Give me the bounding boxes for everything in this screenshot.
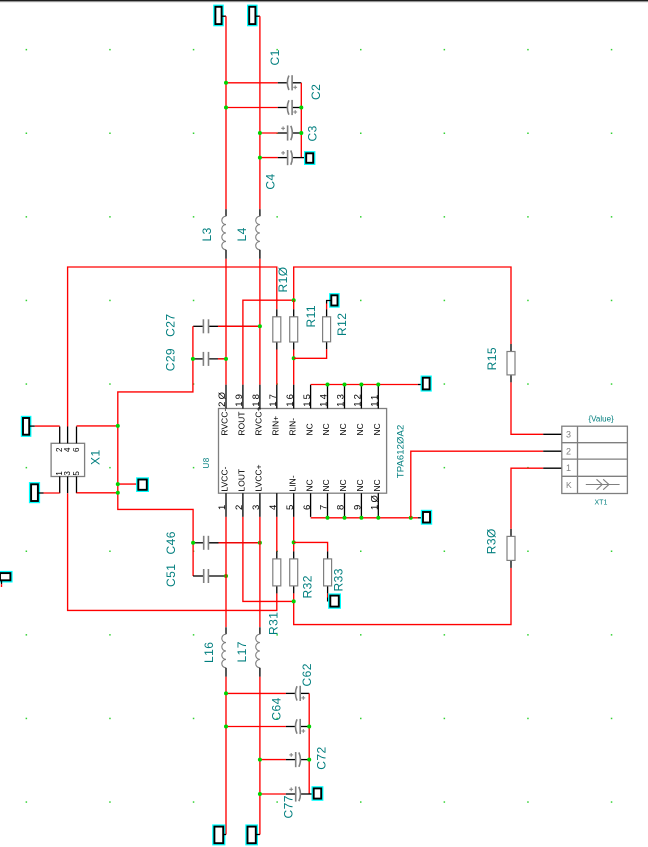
junction bbox=[307, 725, 311, 729]
resistor R30 bbox=[507, 529, 515, 568]
pin 12 stub bbox=[360, 385, 362, 409]
wire R12 bottom to RIN- net bbox=[294, 349, 327, 358]
junction bbox=[376, 516, 380, 520]
svg-text:15: 15 bbox=[302, 392, 313, 407]
svg-text:19: 19 bbox=[234, 392, 245, 407]
svg-text:5: 5 bbox=[285, 503, 296, 510]
capacitor C77 bbox=[286, 786, 314, 801]
junction bbox=[224, 691, 228, 695]
svg-text:2: 2 bbox=[566, 446, 571, 456]
resistor R31 bbox=[273, 551, 281, 593]
junction bbox=[359, 383, 363, 387]
wire pin1 line down bbox=[225, 517, 227, 627]
svg-text:C77: C77 bbox=[282, 795, 296, 818]
inductor L4 bbox=[256, 209, 260, 259]
svg-text:R1Ø: R1Ø bbox=[276, 266, 290, 292]
wire pin5 to R32 bbox=[293, 517, 295, 552]
junction bbox=[258, 131, 262, 135]
svg-text:LVCC+: LVCC+ bbox=[254, 464, 264, 491]
junction bbox=[326, 516, 330, 520]
X1 pin 4 bbox=[67, 427, 69, 444]
wire L17 down to port bbox=[259, 677, 261, 835]
junction bbox=[224, 106, 228, 110]
junction bbox=[116, 491, 120, 495]
wire bbox=[255, 15, 260, 17]
resistor R33 bbox=[324, 551, 332, 593]
wire caps-left net (C27/C29 to X1 right / C46/C51) bbox=[118, 326, 193, 576]
pin 11 stub bbox=[377, 385, 379, 409]
svg-text:C46: C46 bbox=[164, 531, 178, 554]
pin 2 stub bbox=[242, 493, 244, 517]
svg-text:R12: R12 bbox=[335, 313, 349, 336]
wire R32 bottom to R30 bbox=[294, 568, 511, 625]
resistor R32 bbox=[290, 551, 298, 593]
port P13 (bottom) bbox=[246, 825, 257, 844]
svg-text:TPA612ØA2: TPA612ØA2 bbox=[396, 425, 407, 479]
capacitor C51 bbox=[193, 569, 226, 583]
port P14 (left edge) bbox=[0, 572, 12, 582]
junction bbox=[116, 482, 120, 486]
wire C2 row bbox=[226, 107, 278, 109]
X1 pin 2 bbox=[59, 427, 61, 444]
wire bbox=[326, 304, 328, 310]
wire C62 row bbox=[226, 692, 286, 694]
port P10 (R33 bottom) bbox=[327, 593, 329, 597]
pin 20 stub bbox=[225, 385, 227, 409]
wire bbox=[259, 16, 261, 209]
svg-text:12: 12 bbox=[353, 392, 364, 407]
wire X1 pin6 to node bbox=[77, 425, 118, 427]
capacitor C64 bbox=[286, 719, 309, 734]
wire X1 pin3 rail to R31 bbox=[68, 493, 277, 610]
capacitor C27 bbox=[193, 319, 260, 333]
wire C1 row bbox=[226, 82, 278, 84]
capacitor C1 bbox=[278, 75, 302, 90]
svg-text:NC: NC bbox=[372, 423, 382, 435]
svg-text:L4: L4 bbox=[235, 227, 249, 241]
wire C4 row bbox=[260, 157, 278, 159]
junction bbox=[224, 574, 228, 578]
junction bbox=[258, 541, 262, 545]
junction bbox=[258, 156, 262, 160]
wire C27 right to pin18 bbox=[218, 325, 260, 327]
svg-text:R32: R32 bbox=[301, 575, 315, 598]
junction bbox=[292, 599, 296, 603]
wire XT1 pin3 stub bbox=[543, 433, 562, 435]
svg-text:C72: C72 bbox=[315, 746, 329, 769]
svg-text:NC: NC bbox=[321, 423, 331, 435]
inductor L16 bbox=[222, 627, 226, 677]
port P12 (bottom left) bbox=[213, 825, 225, 844]
capacitor C72 bbox=[286, 752, 309, 767]
junction bbox=[191, 541, 195, 545]
svg-text:5: 5 bbox=[72, 471, 81, 476]
pin 18 stub bbox=[259, 385, 261, 409]
resistor R10 bbox=[273, 309, 281, 349]
svg-text:RVCC-: RVCC- bbox=[220, 409, 230, 436]
svg-text:RIN-: RIN- bbox=[287, 418, 297, 436]
resistor R11 bbox=[290, 309, 298, 349]
capacitor C62 bbox=[286, 686, 309, 701]
wire left loop (bus to R10 / X1 pin4) bbox=[68, 267, 277, 427]
svg-text:R11: R11 bbox=[304, 305, 318, 327]
pin 13 stub bbox=[344, 385, 346, 409]
svg-text:C3: C3 bbox=[306, 125, 320, 141]
svg-text:C62: C62 bbox=[300, 663, 314, 686]
pin 14 stub bbox=[327, 385, 329, 409]
junction bbox=[299, 106, 303, 110]
wire bbox=[29, 425, 35, 427]
wire R15 to XT1 pin3 bbox=[511, 382, 543, 434]
svg-text:9: 9 bbox=[353, 503, 364, 510]
wire bbox=[256, 834, 260, 836]
wire pin3 line down bbox=[259, 517, 261, 627]
wire bottom right rail bbox=[308, 693, 310, 794]
junction bbox=[191, 357, 195, 361]
svg-text:C1: C1 bbox=[268, 49, 282, 65]
op-amp U8 TPA6120A2 body bbox=[219, 409, 387, 494]
svg-text:NC: NC bbox=[338, 479, 348, 491]
junction bbox=[359, 516, 363, 520]
svg-text:L3: L3 bbox=[200, 227, 214, 241]
svg-text:R3Ø: R3Ø bbox=[484, 528, 498, 554]
wire XT1 pin1 stub bbox=[543, 467, 562, 469]
svg-text:L16: L16 bbox=[202, 642, 216, 663]
junction bbox=[224, 357, 228, 361]
svg-text:2: 2 bbox=[234, 503, 245, 510]
capacitor C4 bbox=[278, 150, 306, 165]
X1 pin 5 bbox=[76, 477, 78, 494]
svg-text:3: 3 bbox=[63, 471, 72, 476]
svg-text:C64: C64 bbox=[270, 697, 284, 720]
pin 4 stub bbox=[276, 493, 278, 517]
wire L16 down to port bbox=[225, 677, 227, 835]
wire C72 row bbox=[260, 759, 286, 761]
svg-text:NC: NC bbox=[355, 423, 365, 435]
junction bbox=[343, 516, 347, 520]
pin 15 stub bbox=[310, 385, 312, 409]
svg-text:R15: R15 bbox=[485, 347, 499, 370]
svg-text:NC: NC bbox=[304, 423, 314, 435]
pin 1 stub bbox=[225, 493, 227, 517]
junction bbox=[224, 725, 228, 729]
svg-text:17: 17 bbox=[268, 392, 279, 407]
junction bbox=[307, 758, 311, 762]
svg-text:LIN-: LIN- bbox=[287, 475, 297, 491]
junction bbox=[292, 298, 296, 302]
XT1 K-row arrow symbol bbox=[586, 479, 620, 489]
wire R33 branch bbox=[294, 542, 328, 551]
svg-text:11: 11 bbox=[370, 393, 381, 407]
capacitor C3 bbox=[278, 125, 302, 140]
port P9 (bottom NC bus) bbox=[418, 517, 423, 519]
wire XT1 pin1 net bbox=[511, 468, 543, 529]
port P7 (right of X1) bbox=[118, 483, 137, 485]
wire XT1 pin2 net bbox=[411, 451, 543, 518]
wire pin4 to R31 bbox=[276, 517, 278, 552]
wire C29 right to pin20 bbox=[218, 358, 226, 360]
svg-text:8: 8 bbox=[336, 503, 347, 510]
wire R11 bottom to pin16 bbox=[293, 350, 295, 385]
wire R10 to pin17 bbox=[276, 350, 278, 385]
junction bbox=[299, 131, 303, 135]
capacitor C46 bbox=[193, 536, 260, 550]
port P11 (C77 right) bbox=[312, 787, 322, 800]
port P5 (X1 pin2) bbox=[22, 417, 31, 437]
wire bbox=[38, 492, 44, 494]
resistor R15 bbox=[507, 344, 515, 382]
junction bbox=[258, 758, 262, 762]
svg-text:U8: U8 bbox=[202, 457, 211, 468]
svg-text:6: 6 bbox=[72, 447, 81, 452]
wire C46 right to pin3 bbox=[219, 542, 260, 544]
svg-text:NC: NC bbox=[355, 479, 365, 491]
wire right rail C1-C4 bbox=[300, 83, 302, 158]
connector X1 body bbox=[51, 443, 85, 476]
wire pin2 to R32 bottom bbox=[243, 517, 294, 602]
capacitor C2 bbox=[278, 100, 302, 115]
svg-text:NC: NC bbox=[304, 479, 314, 491]
wire R12 port stub bbox=[327, 301, 332, 304]
wire XT1 pin2 stub bbox=[543, 450, 562, 452]
svg-text:RIN+: RIN+ bbox=[271, 416, 281, 436]
svg-text:16: 16 bbox=[285, 392, 296, 407]
junction bbox=[258, 792, 262, 796]
svg-text:7: 7 bbox=[319, 503, 330, 510]
pin 5 stub bbox=[293, 493, 295, 517]
pin 9 stub bbox=[360, 493, 362, 517]
junction bbox=[292, 356, 296, 360]
svg-text:C51: C51 bbox=[164, 564, 178, 587]
svg-text:RVCC+: RVCC+ bbox=[254, 407, 264, 436]
svg-text:XT1: XT1 bbox=[595, 500, 608, 507]
svg-text:C2: C2 bbox=[309, 84, 323, 100]
wire C77 row bbox=[260, 793, 286, 795]
inductor L3 bbox=[222, 209, 226, 259]
svg-text:1: 1 bbox=[217, 503, 228, 510]
wire bbox=[223, 834, 226, 836]
svg-text:R31: R31 bbox=[267, 612, 281, 635]
X1 pin 3 bbox=[67, 477, 69, 494]
svg-text:K: K bbox=[566, 480, 572, 490]
capacitor C29 bbox=[193, 352, 226, 366]
junction bbox=[409, 516, 413, 520]
wire ROUT pin19 to R11 top bbox=[243, 300, 294, 385]
resistor R12 bbox=[323, 309, 331, 349]
port P6 (X1 pin1) bbox=[30, 483, 40, 503]
inductor L17 bbox=[256, 627, 260, 677]
pin 10 stub bbox=[377, 493, 379, 517]
svg-text:{Value}: {Value} bbox=[589, 414, 615, 423]
wire top NC bus (pins 15-11) bbox=[311, 384, 418, 386]
port P2 (top supply) bbox=[248, 5, 257, 25]
svg-text:L17: L17 bbox=[235, 641, 249, 662]
pin 8 stub bbox=[344, 493, 346, 517]
junction bbox=[116, 424, 120, 428]
svg-text:13: 13 bbox=[336, 392, 347, 407]
pin 7 stub bbox=[327, 493, 329, 517]
wire C3 row bbox=[260, 132, 278, 134]
wire L4 to pin18 bbox=[259, 259, 261, 385]
junction bbox=[258, 324, 262, 328]
junction bbox=[343, 383, 347, 387]
pin 3 stub bbox=[259, 493, 261, 517]
svg-text:C29: C29 bbox=[163, 348, 177, 371]
connector XT1 table bbox=[562, 426, 628, 493]
junction bbox=[292, 540, 296, 544]
X1 pin 1 bbox=[59, 477, 61, 494]
svg-text:NC: NC bbox=[321, 479, 331, 491]
port P4 (R12 top) bbox=[330, 294, 339, 307]
port P1 (top supply) bbox=[214, 5, 223, 25]
svg-text:3: 3 bbox=[566, 430, 571, 440]
svg-text:X1: X1 bbox=[89, 449, 103, 465]
svg-text:1Ø: 1Ø bbox=[370, 493, 381, 510]
wire C64 row bbox=[226, 726, 286, 728]
junction bbox=[224, 81, 228, 85]
svg-text:18: 18 bbox=[251, 392, 262, 407]
wire L3 to pin20 bbox=[225, 259, 227, 385]
svg-text:3: 3 bbox=[251, 503, 262, 510]
svg-text:NC: NC bbox=[338, 423, 348, 435]
svg-text:LOUT: LOUT bbox=[237, 469, 247, 492]
pin 16 stub bbox=[293, 385, 295, 409]
port P8 (top NC bus) bbox=[418, 384, 423, 386]
junction bbox=[376, 383, 380, 387]
svg-text:NC: NC bbox=[372, 479, 382, 491]
wire bottom NC bus (pins 6-10) bbox=[311, 517, 418, 519]
pin 17 stub bbox=[276, 385, 278, 409]
wire bbox=[222, 15, 226, 17]
svg-text:14: 14 bbox=[319, 392, 330, 407]
svg-text:6: 6 bbox=[302, 503, 313, 510]
svg-text:R33: R33 bbox=[332, 568, 346, 591]
wire bbox=[225, 16, 227, 209]
wire X1 pin5 to node bbox=[77, 492, 118, 494]
pin 19 stub bbox=[242, 385, 244, 409]
svg-text:C4: C4 bbox=[264, 173, 278, 189]
pin 6 stub bbox=[310, 493, 312, 517]
wire right bus (R11 top to R15) bbox=[294, 267, 511, 344]
svg-text:C27: C27 bbox=[163, 314, 177, 337]
junction bbox=[326, 383, 330, 387]
svg-text:LVCC-: LVCC- bbox=[220, 466, 230, 491]
svg-text:2Ø: 2Ø bbox=[217, 390, 228, 407]
svg-text:4: 4 bbox=[63, 447, 72, 452]
svg-text:4: 4 bbox=[268, 503, 279, 510]
X1 pin 6 bbox=[76, 427, 78, 444]
svg-text:ROUT: ROUT bbox=[237, 411, 247, 435]
wire R11 top stub bbox=[293, 300, 295, 309]
port P3 (C4 right) bbox=[305, 152, 315, 164]
svg-text:1: 1 bbox=[566, 463, 571, 473]
